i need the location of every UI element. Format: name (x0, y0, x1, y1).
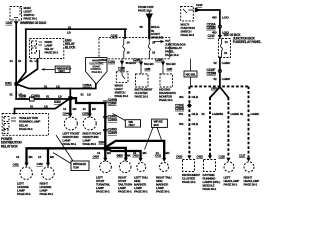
lamp right front park/turn (83, 117, 96, 130)
svg-text:C210: C210 (208, 34, 215, 38)
connector C248 C249A (19, 94, 41, 101)
svg-text:14: 14 (10, 59, 13, 63)
svg-text:C210B: C210B (207, 26, 217, 30)
svg-text:S304: S304 (99, 141, 106, 145)
lamp right tail/side marker (160, 163, 169, 172)
svg-text:C127: C127 (239, 153, 246, 157)
svg-text:PAGE 30-1: PAGE 30-1 (92, 71, 103, 74)
svg-text:301: 301 (179, 95, 184, 99)
svg-text:PAGE 10-1: PAGE 10-1 (182, 180, 196, 184)
4WABS electronic brake control pentagon (83, 58, 108, 88)
svg-text:BLOCK: BLOCK (65, 46, 76, 50)
svg-text:C286: C286 (145, 67, 151, 71)
svg-text:PAGE 30-1: PAGE 30-1 (24, 17, 38, 21)
connector arrow C247 (14, 21, 19, 25)
wire labels 14 BK front (63, 107, 97, 111)
svg-text:O/LB: O/LB (192, 95, 199, 99)
svg-text:58: 58 (140, 25, 143, 29)
svg-text:14: 14 (225, 40, 228, 44)
wire down to right front lamp (89, 103, 91, 114)
wire V1 from main light switch to S301 (15, 25, 17, 100)
park lamp relay box (30, 39, 64, 59)
wire label 52 LG/BK (214, 61, 232, 65)
svg-text:PAGE 30-1: PAGE 30-1 (19, 127, 33, 131)
svg-text:BOX: BOX (154, 123, 160, 127)
junction box fuse panel (large) (99, 37, 170, 58)
svg-text:C452: C452 (37, 162, 44, 166)
note to junction box (165, 39, 186, 57)
label left license (17, 182, 31, 197)
lamp left front park/turn (64, 117, 77, 130)
svg-text:C126: C126 (219, 154, 226, 158)
svg-text:C218: C218 (196, 3, 203, 7)
note w/s only box (113, 114, 141, 128)
multi-function switch box (181, 7, 194, 21)
svg-text:S302: S302 (54, 100, 61, 104)
svg-text:51: 51 (30, 59, 33, 63)
svg-text:PAGE 30-1: PAGE 30-1 (244, 183, 258, 187)
connector arrow instrument cluster (187, 155, 191, 159)
lamp left stop/turn (100, 161, 112, 173)
svg-text:PAGE 30-1: PAGE 30-1 (156, 190, 170, 194)
svg-text:PAGE 30-1: PAGE 30-1 (96, 190, 110, 194)
wire label 52 LG/BK lower (214, 77, 232, 81)
svg-text:LG/BK: LG/BK (231, 112, 240, 116)
svg-text:14: 14 (127, 41, 130, 45)
svg-text:O/LB: O/LB (192, 112, 199, 116)
svg-text:50A BR: 50A BR (144, 62, 154, 66)
label right tail/side marker (156, 176, 172, 194)
svg-text:51: 51 (30, 104, 33, 108)
label left stop/turn (96, 176, 110, 194)
connector arrow C218 (195, 8, 202, 13)
svg-text:PAGE 30-1: PAGE 30-1 (45, 51, 59, 55)
junction box fuse/relay panel (small right) (219, 39, 231, 58)
wire V4 from fuse panel down (104, 103, 106, 149)
svg-text:LG/BK: LG/BK (222, 61, 231, 65)
wire S303 feed down (219, 58, 221, 88)
lamp left headlamp (224, 162, 234, 172)
connector arrow DRL (208, 155, 212, 159)
svg-text:PAGE 30-5: PAGE 30-5 (181, 33, 195, 37)
svg-text:RELAY BOX: RELAY BOX (1, 144, 19, 148)
svg-text:52: 52 (220, 112, 223, 116)
label left headlamp (224, 176, 240, 187)
wash light switch label (115, 84, 129, 99)
label left tail/side marker (134, 176, 148, 194)
svg-text:C424: C424 (93, 154, 100, 158)
wire Y split left (210, 87, 220, 98)
svg-text:16: 16 (18, 59, 21, 63)
svg-text:450: 450 (212, 16, 217, 20)
svg-text:PAGE 30-1: PAGE 30-1 (224, 183, 238, 187)
bus A right corner into fuse panel (124, 29, 126, 38)
svg-text:C249A: C249A (31, 94, 41, 98)
connector arrow left rear (103, 158, 107, 162)
svg-text:PAGE 10-2: PAGE 10-2 (138, 8, 152, 12)
wire label 450 LG/O lower (212, 30, 229, 34)
svg-text:LG/O: LG/O (222, 16, 229, 20)
svg-text:W/WIRING 30 DIAG: W/WIRING 30 DIAG (20, 21, 47, 25)
svg-text:C247: C247 (6, 21, 13, 25)
bus right dashed horizontal (190, 85, 249, 87)
wash light switch box (116, 72, 128, 83)
lamp right stop/turn (119, 161, 131, 173)
fuse F1 (123, 39, 130, 59)
label left front park/turn (63, 132, 80, 147)
wire label 450 LG/O (212, 16, 229, 20)
svg-text:PAGE 30-1: PAGE 30-1 (63, 142, 77, 146)
svg-text:C241: C241 (108, 60, 115, 64)
node J2 (68, 96, 72, 100)
svg-text:C411: C411 (155, 154, 162, 158)
svg-text:PAGE 30-1: PAGE 30-1 (118, 190, 132, 194)
svg-text:PAGE 30-1: PAGE 30-1 (40, 192, 54, 196)
svg-text:C425: C425 (117, 154, 124, 158)
wire label 301 O/LB low (179, 122, 199, 126)
connector arrow C285 (155, 58, 176, 74)
HEC diagnostic monitor box (159, 74, 177, 102)
svg-text:PAGE 10-1: PAGE 10-1 (135, 95, 149, 99)
connector arrow left tail (139, 158, 143, 162)
multi-function switch label (181, 22, 195, 37)
from C155 feed (138, 5, 164, 40)
connector C210F C210M (207, 68, 222, 76)
note w/plane kit box (145, 119, 168, 149)
node J3 (104, 146, 108, 150)
svg-text:52: 52 (240, 112, 243, 116)
svg-text:C249H: C249H (108, 131, 118, 135)
svg-text:C249F: C249F (108, 101, 117, 105)
connector arrow right headlamp (246, 158, 250, 162)
connector arrow right license (46, 163, 50, 167)
connector arrow right tail (162, 158, 166, 162)
svg-text:O/LB: O/LB (192, 122, 199, 126)
wire J3 to tail marker lamps (105, 141, 164, 158)
wire label row y113 (179, 112, 260, 116)
wash light switch column (108, 59, 137, 72)
svg-text:51: 51 (44, 85, 47, 89)
wire arrow to junction box text (154, 40, 165, 43)
svg-text:50A BR: 50A BR (166, 62, 176, 66)
label DRL module (203, 173, 221, 191)
svg-text:C285: C285 (155, 58, 162, 62)
svg-text:C287: C287 (167, 67, 173, 71)
svg-text:16: 16 (152, 51, 155, 55)
instrument cluster module box (183, 160, 195, 172)
svg-text:C420: C420 (176, 154, 183, 158)
wire right headlamp drop (248, 86, 250, 157)
connector arrow left license (24, 163, 28, 167)
note windshield only box (41, 66, 71, 73)
svg-text:C250A: C250A (83, 83, 93, 87)
wire J2 to front lamps right path (70, 98, 105, 103)
connector arrow right front (88, 114, 92, 118)
note power distribution relay box (1, 137, 22, 148)
main light switch box (10, 7, 22, 21)
lamp left tail/side marker (137, 163, 146, 172)
svg-text:51: 51 (10, 93, 13, 97)
svg-text:16: 16 (224, 51, 227, 55)
svg-text:51: 51 (81, 92, 84, 96)
svg-text:ONLY: ONLY (59, 69, 66, 73)
wire right license branch (47, 149, 49, 163)
svg-text:16: 16 (127, 51, 130, 55)
wire J3 left to license lamps (27, 148, 106, 162)
trailer tow relay label (19, 116, 40, 131)
wire J2 left C248 line (16, 98, 70, 100)
connector C249C C249G (103, 115, 118, 123)
svg-text:LG/BK: LG/BK (222, 77, 231, 81)
svg-text:52: 52 (214, 77, 217, 81)
wire label 51 LB mid (30, 85, 63, 109)
connector C210E C210D (175, 103, 192, 111)
main light switch label (24, 6, 38, 21)
connector arrow C284 (133, 58, 154, 74)
wire tail marker right leg (107, 148, 141, 158)
svg-text:TOW: TOW (73, 165, 79, 169)
park lamp relay label (45, 40, 59, 55)
wire V3 from park lamp relay down (18, 59, 38, 83)
lamp right license (42, 167, 54, 179)
wire J3 to right rear lamp (105, 148, 126, 158)
svg-text:51: 51 (68, 25, 71, 29)
wire label 51 LB (67, 25, 72, 34)
fuse F2 (148, 39, 155, 59)
svg-text:14: 14 (83, 107, 86, 111)
svg-text:C410: C410 (133, 154, 140, 158)
svg-text:C210M: C210M (207, 72, 217, 76)
wire down to instrument cluster (188, 86, 190, 156)
svg-text:W/O EBL: W/O EBL (186, 72, 197, 76)
svg-text:52: 52 (214, 61, 217, 65)
svg-text:38 BK/O: 38 BK/O (126, 61, 137, 65)
svg-text:C422: C422 (197, 154, 204, 158)
wire MFS to fuse panel (201, 10, 220, 36)
svg-text:PAGE 30-2: PAGE 30-2 (203, 187, 217, 191)
bus A horizontal top (26, 28, 126, 30)
wire label 14 16 (10, 59, 92, 97)
lamp right headlamp (244, 162, 254, 172)
wire label 301 O/LB top (179, 95, 199, 99)
svg-text:PAGE 30-1: PAGE 30-1 (83, 142, 97, 146)
wire V2 left corner down (17, 29, 26, 84)
svg-text:PAGE 10-2: PAGE 10-2 (165, 53, 179, 57)
connector arrow left front (68, 114, 72, 118)
connector arrow into small panel (218, 35, 222, 39)
svg-text:FUSE/RELAY PANEL: FUSE/RELAY PANEL (233, 40, 262, 44)
svg-text:ONLY: ONLY (129, 123, 136, 127)
note ENG relay block (65, 39, 76, 50)
note W/O EBL box (184, 59, 197, 86)
svg-text:14: 14 (63, 107, 66, 111)
label right headlamp (244, 176, 260, 187)
svg-text:14: 14 (38, 155, 41, 159)
wire J2 lower-left line (15, 98, 71, 113)
lamp left license (20, 167, 32, 179)
wire J2 feed corner (69, 89, 71, 99)
label right stop/turn (118, 176, 132, 194)
wire down to left front lamp (69, 98, 71, 113)
label right license (40, 182, 54, 197)
svg-text:S301: S301 (5, 82, 12, 86)
svg-text:14: 14 (16, 155, 19, 159)
svg-text:C250B: C250B (99, 58, 107, 62)
label right front park/turn (83, 132, 102, 147)
connector C210A C210B (207, 22, 222, 30)
DRL module box (204, 160, 216, 172)
svg-text:51: 51 (46, 95, 49, 99)
wire J3 down left rear lamp (104, 149, 106, 158)
svg-text:C248: C248 (19, 94, 26, 98)
wire labels 14 BK rear row (97, 151, 170, 158)
wire labels 14 BK license row (16, 155, 55, 159)
svg-text:C451: C451 (13, 163, 20, 167)
trailer tow running lamp relay box (2, 114, 48, 136)
svg-text:W/TRAILER: W/TRAILER (73, 162, 86, 166)
svg-text:C210D: C210D (175, 107, 185, 111)
wire S301 to J2 (16, 84, 96, 89)
svg-text:PAGE 30-1: PAGE 30-1 (134, 190, 148, 194)
connector C249D C249H (103, 128, 118, 136)
connector arrow right rear (124, 158, 128, 162)
svg-text:PAGE 30-1: PAGE 30-1 (17, 192, 31, 196)
svg-text:301: 301 (179, 122, 184, 126)
svg-text:301: 301 (179, 112, 184, 116)
connector arrow left headlamp (226, 158, 230, 162)
svg-text:52: 52 (202, 112, 205, 116)
label instrument cluster (182, 173, 200, 184)
svg-text:LG/BK: LG/BK (251, 112, 260, 116)
wire Y split right (220, 87, 229, 98)
instrument cluster (top) box (135, 74, 153, 99)
connector C249B C249F (103, 98, 118, 106)
node S301 (5, 82, 18, 86)
note w/trailer tow box (53, 135, 89, 171)
note junction box fuse/relay panel (233, 37, 262, 45)
svg-text:PAGE 10-1: PAGE 10-1 (159, 98, 173, 102)
svg-text:C249G: C249G (108, 118, 118, 122)
